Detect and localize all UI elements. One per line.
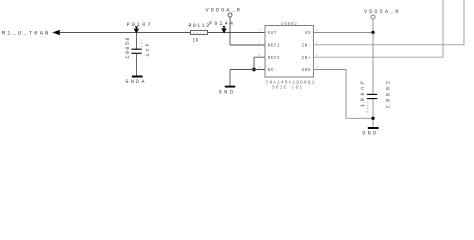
svg-text:REF1: REF1 xyxy=(268,44,281,49)
svg-text:GND: GND xyxy=(362,131,378,136)
svg-text:GND: GND xyxy=(302,68,311,73)
wire: REF2 to IC xyxy=(254,56,265,58)
test point P9107 probe symbol xyxy=(135,27,139,33)
svg-text:1: 1 xyxy=(316,54,318,57)
svg-text:IN+: IN+ xyxy=(302,56,311,61)
wire: down to GND xyxy=(229,70,231,86)
svg-text:1k: 1k xyxy=(192,38,199,44)
svg-text:2: 2 xyxy=(316,42,318,45)
svg-text:C9058: C9058 xyxy=(125,36,131,58)
wire: REF2 down to NC net xyxy=(253,57,255,69)
wire: C9082 to GND xyxy=(372,99,374,127)
wire: IN+ to right edge, up xyxy=(314,0,444,57)
svg-text:6: 6 xyxy=(258,66,260,69)
svg-text:VS: VS xyxy=(305,31,311,36)
svg-text:GNDA: GNDA xyxy=(125,79,146,85)
wire: VDD5A_R down to REF1 (crosses OUT wire, no connection) xyxy=(229,17,231,45)
junction VS/VDD/C9082 xyxy=(371,31,374,34)
svg-text:SOIC (8): SOIC (8) xyxy=(272,85,303,90)
svg-text:P9244: P9244 xyxy=(209,21,235,27)
junction C9082/GND wire xyxy=(371,117,374,120)
svg-text:OUT: OUT xyxy=(268,31,277,36)
svg-text:7: 7 xyxy=(258,29,260,32)
svg-text:GND: GND xyxy=(219,89,236,95)
wire: IN- to right edge, up xyxy=(314,0,465,45)
test point P9244 probe symbol xyxy=(222,27,226,33)
op-amp U9002 body (INA240) xyxy=(265,26,314,78)
svg-text:IN-: IN- xyxy=(302,44,311,49)
svg-text:VDD5A_R: VDD5A_R xyxy=(206,8,243,14)
arrow (off-page connector, pointing left) xyxy=(52,30,60,35)
svg-text:M1_U_T6AN: M1_U_T6AN xyxy=(2,31,51,37)
svg-text:REF2: REF2 xyxy=(268,56,281,61)
ground GND (left) xyxy=(225,86,235,88)
ground GND (right) xyxy=(368,127,379,129)
svg-text:8: 8 xyxy=(316,29,318,32)
svg-text:R9113: R9113 xyxy=(188,23,210,29)
ground GNDA xyxy=(132,76,143,78)
wire: R9113 to IC OUT pin xyxy=(208,32,266,34)
svg-text:VDD5A_R: VDD5A_R xyxy=(364,9,401,15)
wire: arrow to resistor R9113 xyxy=(60,32,191,34)
svg-text:0402: 0402 xyxy=(193,31,206,35)
capacitor C9082 plates xyxy=(367,93,377,95)
svg-text:1nF: 1nF xyxy=(145,41,151,57)
junction REF2/NC xyxy=(252,68,256,72)
svg-text:0402: 0402 xyxy=(140,38,144,51)
resistor R9113 body xyxy=(191,30,208,34)
capacitor C9058 plates xyxy=(131,48,141,50)
wire: VS to VDD5A_R junction xyxy=(314,32,374,34)
wire: VDD5A_R to VS wire xyxy=(372,19,374,33)
wire: C9058 tap from main wire xyxy=(136,33,138,49)
wire: REF1 to IC xyxy=(230,44,265,46)
svg-text:0402: 0402 xyxy=(366,100,370,113)
wire: NC row to IC xyxy=(230,69,265,71)
wire: C9058 to GNDA xyxy=(136,54,138,76)
svg-text:3: 3 xyxy=(316,66,318,69)
wire: IC GND pin to bottom junction xyxy=(314,70,374,119)
svg-text:5: 5 xyxy=(258,42,260,45)
wire: junction down to C9082 xyxy=(372,33,374,95)
svg-text:NC: NC xyxy=(268,68,274,73)
svg-text:4: 4 xyxy=(258,54,260,57)
svg-text:C9082: C9082 xyxy=(385,78,391,108)
svg-text:P9107: P9107 xyxy=(127,22,153,28)
